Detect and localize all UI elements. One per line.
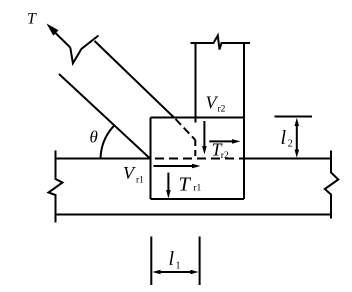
force arrow V_r2 head	[202, 146, 207, 155]
svg-text:V: V	[123, 163, 136, 183]
dimension l1 left arrowhead	[152, 270, 160, 275]
dashed dispersion vertical inside joint	[194, 140, 196, 159]
dashed chord face line inside joint	[155, 158, 244, 160]
force arrow T_r1 head	[166, 190, 171, 199]
branch member right edge / joint rectangle right edge	[243, 44, 245, 199]
branch member left edge	[195, 44, 197, 123]
chord beam top edge right segment	[244, 158, 332, 160]
svg-text:r1: r1	[193, 184, 201, 194]
force arrow T shaft	[55, 32, 71, 48]
dimension l2 up arrowhead	[295, 118, 300, 126]
force arrow T_r2 shaft	[209, 140, 233, 142]
svg-text:l: l	[281, 127, 287, 149]
force arrow along chord face head	[192, 164, 201, 169]
force arrow T_r2 head	[232, 139, 241, 144]
svg-text:l: l	[169, 248, 175, 270]
force arrow T_r1 shaft	[167, 173, 169, 191]
svg-text:r2: r2	[221, 151, 229, 161]
joint rectangle top edge	[151, 117, 245, 119]
dashed dispersion diagonal inside joint	[176, 119, 196, 140]
dimension l2 top tick	[275, 116, 313, 118]
dimension l2 arrow shaft	[296, 123, 298, 152]
diagonal brace upper-right edge	[95, 41, 175, 118]
force arrow V_r2 shaft	[203, 121, 205, 147]
svg-text:T: T	[179, 174, 192, 196]
svg-text:T: T	[27, 11, 37, 28]
dimension l2 down arrowhead	[295, 150, 300, 158]
joint rectangle left edge	[150, 118, 152, 200]
force arrow along chord face shaft	[154, 165, 194, 167]
chord beam right end break symbol	[325, 151, 339, 219]
joint rectangle bottom edge	[151, 198, 245, 200]
svg-text:1: 1	[176, 261, 181, 272]
diagonal brace lower-left edge	[59, 74, 150, 159]
force arrow T head	[47, 24, 59, 36]
dimension l1 right tick	[199, 237, 201, 286]
svg-text:r2: r2	[218, 105, 226, 115]
branch member top end break symbol	[191, 36, 251, 50]
svg-text:2: 2	[288, 139, 293, 150]
chord beam left end break symbol	[49, 151, 63, 223]
dimension l1 left tick	[150, 237, 152, 286]
chord beam top edge left segment	[56, 158, 152, 160]
angle arc theta	[101, 125, 115, 158]
svg-text:θ: θ	[90, 128, 98, 147]
svg-text:r1: r1	[136, 176, 144, 186]
diagonal brace break symbol	[70, 36, 98, 64]
dimension l1 arrow shaft	[158, 271, 193, 273]
dimension l1 right arrowhead	[190, 270, 198, 275]
chord beam bottom edge	[56, 214, 332, 216]
